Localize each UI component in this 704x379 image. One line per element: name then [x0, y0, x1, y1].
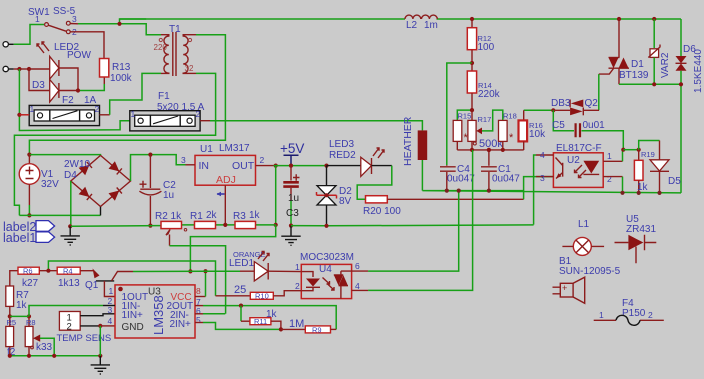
resistor R9 — [281, 328, 305, 330]
zener D2 — [326, 166, 328, 186]
U3 pin5 wire 2IN+ — [195, 322, 203, 324]
svg-text:32: 32 — [185, 64, 194, 73]
D1 gate wire — [599, 69, 614, 75]
wire LED2/D3 cathodes to R13 — [59, 68, 104, 91]
svg-text:ADJ: ADJ — [216, 174, 236, 186]
U4 triac — [334, 271, 352, 299]
svg-text:R13: R13 — [112, 62, 131, 73]
svg-text:SUN-12095-5: SUN-12095-5 — [559, 266, 621, 277]
svg-text:C3: C3 — [286, 208, 299, 219]
svg-text:VAR2: VAR2 — [660, 52, 671, 78]
wire LED3 cathode to R20 — [357, 166, 392, 200]
transistor Q1 — [80, 270, 93, 272]
wire SW1 pin3 to top rail — [78, 19, 161, 35]
triac D1 — [617, 17, 621, 21]
svg-text:R6: R6 — [23, 266, 33, 275]
wire DB3 to C5 — [553, 110, 574, 130]
svg-text:1u: 1u — [163, 190, 174, 201]
node F2 pin1 — [17, 113, 21, 117]
svg-text:1k13: 1k13 — [58, 278, 80, 289]
wire bridge right to C2 rail — [131, 155, 186, 181]
wire R15 top — [457, 110, 472, 120]
svg-text:Q1: Q1 — [85, 280, 99, 291]
svg-text:GND: GND — [122, 322, 144, 333]
svg-text:C5: C5 — [552, 120, 565, 131]
trimmer arrow R2 — [166, 230, 170, 236]
svg-text:D5: D5 — [668, 176, 681, 187]
resistor R10 — [216, 295, 251, 297]
wire T1 secondary bottom — [188, 72, 196, 74]
switch SW1 — [45, 23, 49, 27]
svg-text:1: 1 — [295, 262, 300, 272]
svg-text:F2: F2 — [62, 95, 74, 106]
svg-text:D4: D4 — [64, 170, 77, 181]
svg-text:Q2: Q2 — [585, 98, 599, 109]
svg-text:3: 3 — [181, 155, 186, 165]
svg-text:2: 2 — [607, 174, 612, 184]
svg-text:4: 4 — [108, 316, 113, 326]
wire R20 to U2 pin3 — [387, 198, 523, 200]
svg-text:1: 1 — [30, 104, 35, 114]
svg-text:2W10: 2W10 — [64, 159, 91, 170]
capacitor C4 — [440, 165, 456, 191]
fuse F4 — [594, 319, 664, 321]
svg-text:DB3: DB3 — [551, 98, 571, 109]
svg-text:100: 100 — [478, 42, 495, 53]
svg-text:6: 6 — [355, 261, 360, 271]
U4 LED — [301, 272, 313, 277]
source V1 — [28, 155, 30, 164]
ground rail bottom left — [10, 355, 101, 357]
U2 pin4 wire to ground rail — [534, 155, 536, 225]
svg-text:2IN+: 2IN+ — [170, 319, 192, 330]
resistor R3 — [235, 221, 256, 228]
wire F2 pin2 riser — [100, 114, 110, 116]
svg-text:IN: IN — [199, 160, 210, 172]
resistor R4 — [57, 267, 80, 274]
U4 pin6 wire — [352, 270, 369, 272]
svg-text:U4: U4 — [319, 264, 332, 275]
svg-text:R2 1k: R2 1k — [155, 211, 182, 222]
varistor VAR2 — [652, 17, 656, 21]
U2 LED — [583, 161, 599, 174]
svg-text:1: 1 — [599, 310, 604, 320]
svg-text:U2: U2 — [567, 155, 580, 166]
capacitor C2 — [149, 155, 151, 188]
U2 phototransistor — [536, 154, 553, 156]
wire terminal X2 node — [14, 68, 29, 70]
TEMP SENS pin1 wire — [80, 314, 115, 316]
potentiometer R17 — [471, 110, 473, 120]
resistor R20 — [366, 196, 388, 203]
U2 pin2 wire — [603, 176, 622, 178]
svg-text:0u01: 0u01 — [583, 120, 606, 131]
svg-text:ZR431: ZR431 — [626, 224, 656, 235]
svg-text:R20 100: R20 100 — [363, 206, 401, 217]
svg-text:1k: 1k — [249, 210, 261, 221]
svg-text:2: 2 — [67, 322, 72, 333]
resistor R7 — [6, 286, 14, 306]
svg-text:label1: label1 — [3, 231, 36, 245]
svg-text:R9: R9 — [312, 325, 322, 334]
wire LED2 anode — [29, 68, 50, 70]
svg-text:2: 2 — [295, 281, 300, 291]
+5V rail — [274, 164, 278, 168]
svg-text:R17: R17 — [478, 115, 492, 124]
svg-text:k27: k27 — [22, 278, 39, 289]
wire top rail — [120, 18, 682, 20]
wire V1 bottom to rail — [28, 205, 30, 215]
svg-text:F1: F1 — [158, 91, 170, 102]
wire F1 pin2 heater rail — [200, 120, 210, 122]
svg-text:2k: 2k — [206, 210, 218, 221]
wire D3 anode — [29, 69, 50, 91]
resistor R15 — [453, 120, 462, 141]
resistor R12 — [470, 17, 474, 21]
svg-text:+5V: +5V — [280, 141, 304, 156]
svg-text:HEATHER: HEATHER — [402, 116, 414, 166]
svg-text:1: 1 — [607, 151, 612, 161]
wire R2 wiper to 2IN- — [169, 235, 171, 246]
LED2 — [50, 56, 59, 79]
resistor R16 — [524, 109, 554, 111]
pot mark 500k — [473, 142, 476, 145]
svg-text:1: 1 — [109, 286, 114, 296]
wire pots bottom rail — [457, 149, 523, 151]
U2 LED arrows — [575, 165, 587, 178]
U3 pin7 wire 2OUT — [195, 305, 203, 307]
wire to U3 pin2 — [29, 306, 103, 317]
capacitor C3 — [290, 166, 292, 181]
buzzer B1 — [560, 283, 573, 297]
svg-text:1: 1 — [35, 14, 40, 24]
svg-text:LED1: LED1 — [229, 258, 254, 269]
svg-text:1M: 1M — [289, 318, 304, 330]
wire heater bottom — [421, 160, 423, 191]
resistor R5 — [9, 316, 11, 326]
LED LED1 — [254, 262, 268, 281]
svg-text:1m: 1m — [424, 20, 438, 31]
svg-text:R5: R5 — [7, 318, 17, 327]
capacitor C5 — [576, 123, 580, 137]
ground symbol left — [61, 226, 80, 245]
svg-text:LM317: LM317 — [219, 143, 250, 154]
terminal X2 — [8, 68, 14, 70]
R8 wiper — [33, 335, 40, 342]
svg-text:LM358: LM358 — [151, 295, 166, 335]
svg-text:R10: R10 — [255, 292, 269, 301]
svg-text:3: 3 — [72, 14, 77, 24]
diode D5 — [659, 141, 661, 160]
svg-text:+: + — [562, 283, 567, 293]
svg-text:2: 2 — [260, 155, 265, 165]
svg-text:OUT: OUT — [232, 160, 255, 172]
svg-text:R11: R11 — [254, 317, 267, 326]
wire X2 down left edge — [19, 69, 129, 131]
svg-text:3: 3 — [108, 305, 113, 315]
svg-text:R1: R1 — [190, 211, 203, 222]
wire feedback rail — [48, 261, 215, 296]
svg-text:5: 5 — [196, 315, 201, 325]
svg-text:1IN+: 1IN+ — [122, 310, 144, 321]
connector TEMP SENS — [59, 312, 80, 331]
svg-text:1: 1 — [131, 109, 136, 119]
node R12/R14 — [470, 61, 474, 65]
wiper wire R17 to R18 — [482, 110, 503, 131]
svg-text:2: 2 — [648, 310, 653, 320]
resistor R11 — [240, 306, 242, 322]
svg-text:R19: R19 — [641, 150, 655, 159]
svg-text:R8: R8 — [26, 318, 36, 327]
U2 pin1 wire — [603, 160, 622, 162]
svg-text:4: 4 — [540, 150, 545, 160]
svg-text:POW: POW — [67, 50, 91, 61]
svg-text:BT139: BT139 — [619, 70, 649, 81]
svg-text:R3: R3 — [233, 211, 246, 222]
svg-text:R4: R4 — [63, 266, 73, 275]
resistor R6 — [10, 271, 18, 286]
svg-text:R15: R15 — [458, 112, 472, 121]
lamp L1 — [573, 237, 591, 255]
resistor R2 — [161, 221, 182, 228]
heater element — [418, 130, 428, 160]
svg-text:D3: D3 — [32, 80, 45, 91]
svg-text:100k: 100k — [110, 73, 133, 84]
U3 pin6 wire 2IN- — [195, 313, 203, 315]
wire OUT node to VCC line — [190, 225, 275, 272]
wire D5 jog — [639, 141, 660, 150]
potentiometer R8 — [28, 316, 30, 326]
node C2 bottom — [148, 224, 152, 228]
resistor R14 — [471, 63, 473, 71]
svg-text:R18: R18 — [503, 112, 517, 121]
wire V1 top to bridge — [29, 154, 100, 157]
svg-text:8: 8 — [196, 286, 201, 296]
U4 arrows — [323, 278, 335, 291]
wire C4/C1 bottom rail — [422, 191, 681, 193]
svg-text:4: 4 — [355, 281, 360, 291]
svg-text:TEMP SENS: TEMP SENS — [57, 333, 112, 344]
shunt reg U5 — [628, 235, 643, 250]
D3 — [50, 80, 59, 103]
U1 ADJ lead — [224, 185, 226, 225]
fuse F1 — [130, 111, 200, 131]
svg-text:3: 3 — [540, 173, 545, 183]
ground rail / divider chain — [71, 225, 534, 226]
resistor R13 — [100, 59, 109, 78]
bridge rectifier D4 — [71, 155, 131, 206]
wire terminal X1 to SW1 — [14, 25, 44, 45]
svg-text:32V: 32V — [41, 179, 59, 190]
svg-text:25: 25 — [234, 284, 246, 296]
svg-text:1k: 1k — [16, 300, 28, 311]
wire OUT to divider — [275, 166, 277, 225]
svg-text:P150: P150 — [622, 308, 646, 319]
U3 pin8 wire — [195, 296, 206, 298]
wire node to R19 top — [623, 149, 638, 151]
wire D1 bottom rail — [619, 83, 681, 85]
svg-text:U1: U1 — [200, 144, 213, 155]
node R7 bottom — [8, 314, 12, 318]
resistor R18 — [499, 120, 508, 141]
wire node to C4 — [447, 63, 472, 165]
terminal X1 — [8, 43, 14, 45]
node C2 top — [148, 153, 152, 157]
capacitor C1 — [481, 150, 497, 191]
ground symbol center — [281, 226, 300, 246]
U4 pin4 wire — [352, 289, 369, 291]
svg-text:220: 220 — [154, 43, 168, 52]
svg-text:1u: 1u — [288, 193, 299, 204]
svg-text:MOC3023M: MOC3023M — [300, 252, 354, 263]
svg-text:1.5KE440: 1.5KE440 — [693, 49, 704, 93]
node ADJ divider — [223, 223, 227, 227]
U1 pin2 lead — [256, 165, 274, 167]
ground symbol bottom left — [91, 356, 110, 374]
regulator U1 LM317 — [195, 155, 256, 185]
U1 pin3 lead — [186, 164, 196, 166]
fuse F2 — [29, 105, 99, 125]
svg-text:*: * — [509, 132, 514, 144]
svg-text:1A: 1A — [84, 95, 97, 106]
svg-text:8V: 8V — [339, 196, 352, 207]
wire SW1 pin2 to R13 — [70, 32, 104, 59]
svg-text:10k: 10k — [529, 129, 546, 140]
svg-text:L2: L2 — [406, 20, 418, 31]
wire R6-R4 node — [39, 270, 57, 272]
opamp U3 LM358 — [115, 285, 195, 338]
svg-text:0u047: 0u047 — [447, 174, 475, 185]
wire F2 pin1 lead — [19, 114, 29, 116]
svg-text:1k: 1k — [637, 182, 649, 193]
wire bridge left to ground — [70, 181, 72, 226]
wire Q1 collector / VCC rail — [133, 270, 240, 272]
svg-text:T1: T1 — [169, 24, 181, 35]
pin 1 arrow U1 — [217, 193, 225, 195]
svg-text:220k: 220k — [478, 89, 501, 100]
svg-text:5x20 1.5 A: 5x20 1.5 A — [157, 102, 205, 113]
resistor R1 — [195, 221, 216, 228]
svg-text:RED2: RED2 — [329, 150, 356, 161]
resistor R19 — [638, 150, 640, 161]
wire AC bottom rail — [19, 214, 100, 216]
inductor L2 — [405, 15, 437, 19]
svg-text:k33: k33 — [36, 342, 53, 353]
TVS diode D6 — [680, 19, 682, 56]
diac DB3 — [551, 108, 555, 112]
svg-text:D1: D1 — [631, 59, 644, 70]
junction node — [117, 22, 121, 26]
node V1 top — [27, 153, 31, 157]
svg-text:L1: L1 — [578, 219, 590, 230]
U3 pin2 lead — [103, 305, 115, 307]
svg-text:0u047: 0u047 — [492, 174, 520, 185]
TEMP SENS pin2 wire — [80, 325, 100, 327]
wire T1 secondary top — [188, 34, 196, 36]
wire C5 to U2 pin1 node — [582, 131, 624, 150]
svg-text:LED3: LED3 — [329, 139, 354, 150]
